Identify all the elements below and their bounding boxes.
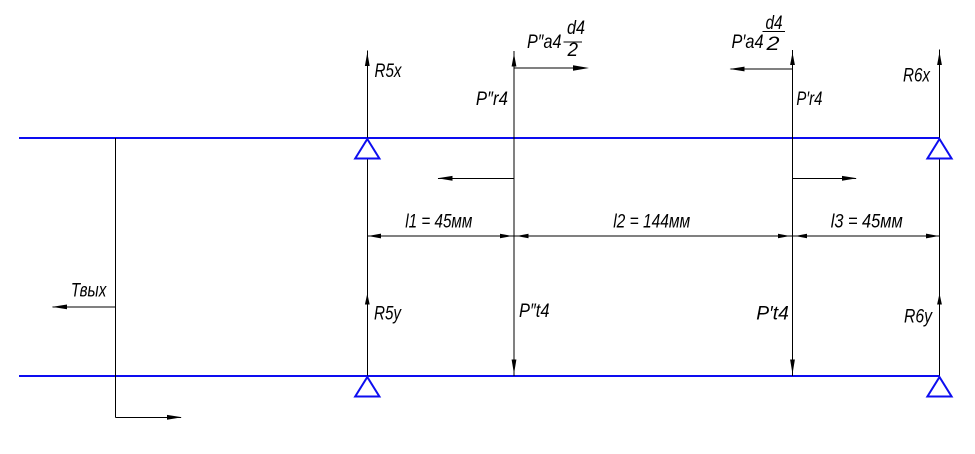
torque bottom arrow right [116, 415, 183, 420]
moment arrow right at B [514, 65, 589, 70]
svg-text:Твых: Твых [71, 281, 108, 302]
svg-text:l3 = 45мм: l3 = 45мм [831, 212, 903, 233]
svg-text:P″a4: P″a4 [527, 32, 562, 53]
force P't4 arrow down [790, 360, 795, 375]
fraction d4/2 right [763, 13, 786, 55]
force line A (support 1) [366, 51, 368, 377]
force R5x arrow up [365, 53, 370, 67]
svg-text:P′r4: P′r4 [796, 89, 822, 110]
svg-text:R5y: R5y [374, 304, 402, 325]
svg-text:P′t4: P′t4 [756, 304, 789, 325]
force line C [792, 50, 794, 376]
svg-text:R5x: R5x [375, 61, 403, 82]
dim arrow l3 left [795, 234, 807, 239]
dimension line [367, 235, 939, 237]
dim arrow l1 left [368, 234, 381, 239]
shaft line bottom [19, 375, 940, 377]
svg-text:R6y: R6y [904, 307, 933, 328]
svg-text:P′a4: P′a4 [732, 32, 764, 53]
support triangle 1 top left [355, 139, 379, 159]
axial arrow right at C [793, 176, 858, 181]
label R6y [904, 307, 933, 328]
svg-text:P″t4: P″t4 [519, 301, 550, 322]
force P''t4 arrow down [512, 360, 517, 375]
label R5x [375, 61, 403, 82]
label P'g4 [796, 89, 822, 110]
label l3 [831, 212, 903, 233]
label P''g4 [476, 89, 508, 110]
label P'a4 [732, 32, 764, 53]
svg-text:2: 2 [765, 34, 780, 55]
svg-text:l1 = 45мм: l1 = 45мм [405, 212, 472, 233]
svg-text:l2 = 144мм: l2 = 144мм [613, 212, 690, 233]
force R6x arrow up [937, 52, 942, 65]
axial arrow left at B [438, 176, 515, 181]
svg-text:R6x: R6x [903, 66, 931, 87]
shaft line top [19, 137, 940, 139]
svg-text:d4: d4 [567, 18, 585, 39]
force R6y arrow up [937, 294, 942, 305]
fraction d4/2 left [564, 18, 586, 61]
svg-text:d4: d4 [766, 13, 783, 34]
dim arrow l1 right [500, 234, 512, 239]
label R6x [903, 66, 931, 87]
label R5y [374, 304, 402, 325]
dim arrow l3 right [926, 234, 939, 239]
label l2 [613, 212, 690, 233]
force line B [513, 51, 515, 376]
svg-text:2: 2 [567, 40, 579, 61]
support triangle 2 top right [927, 139, 951, 159]
torque arrow left [52, 305, 116, 310]
force P'g4 arrow up [790, 53, 795, 66]
dim arrow l2 left [517, 234, 529, 239]
torque line Tvyh vertical [115, 138, 117, 417]
moment arrow left at C [730, 67, 793, 72]
label P''a4 [527, 32, 562, 53]
support triangle 3 bottom left [355, 377, 379, 397]
label l1 [405, 212, 472, 233]
force R5y arrow up [365, 294, 370, 305]
force line D (support 2) [939, 49, 941, 376]
force P''g4 arrow up [512, 54, 517, 67]
label P''t4 [519, 301, 550, 322]
dim arrow l2 right [778, 234, 790, 239]
svg-text:P″r4: P″r4 [476, 89, 508, 110]
support triangle 4 bottom right [927, 377, 951, 397]
torque label Tvyh [71, 281, 108, 302]
label P't4 [756, 304, 789, 325]
